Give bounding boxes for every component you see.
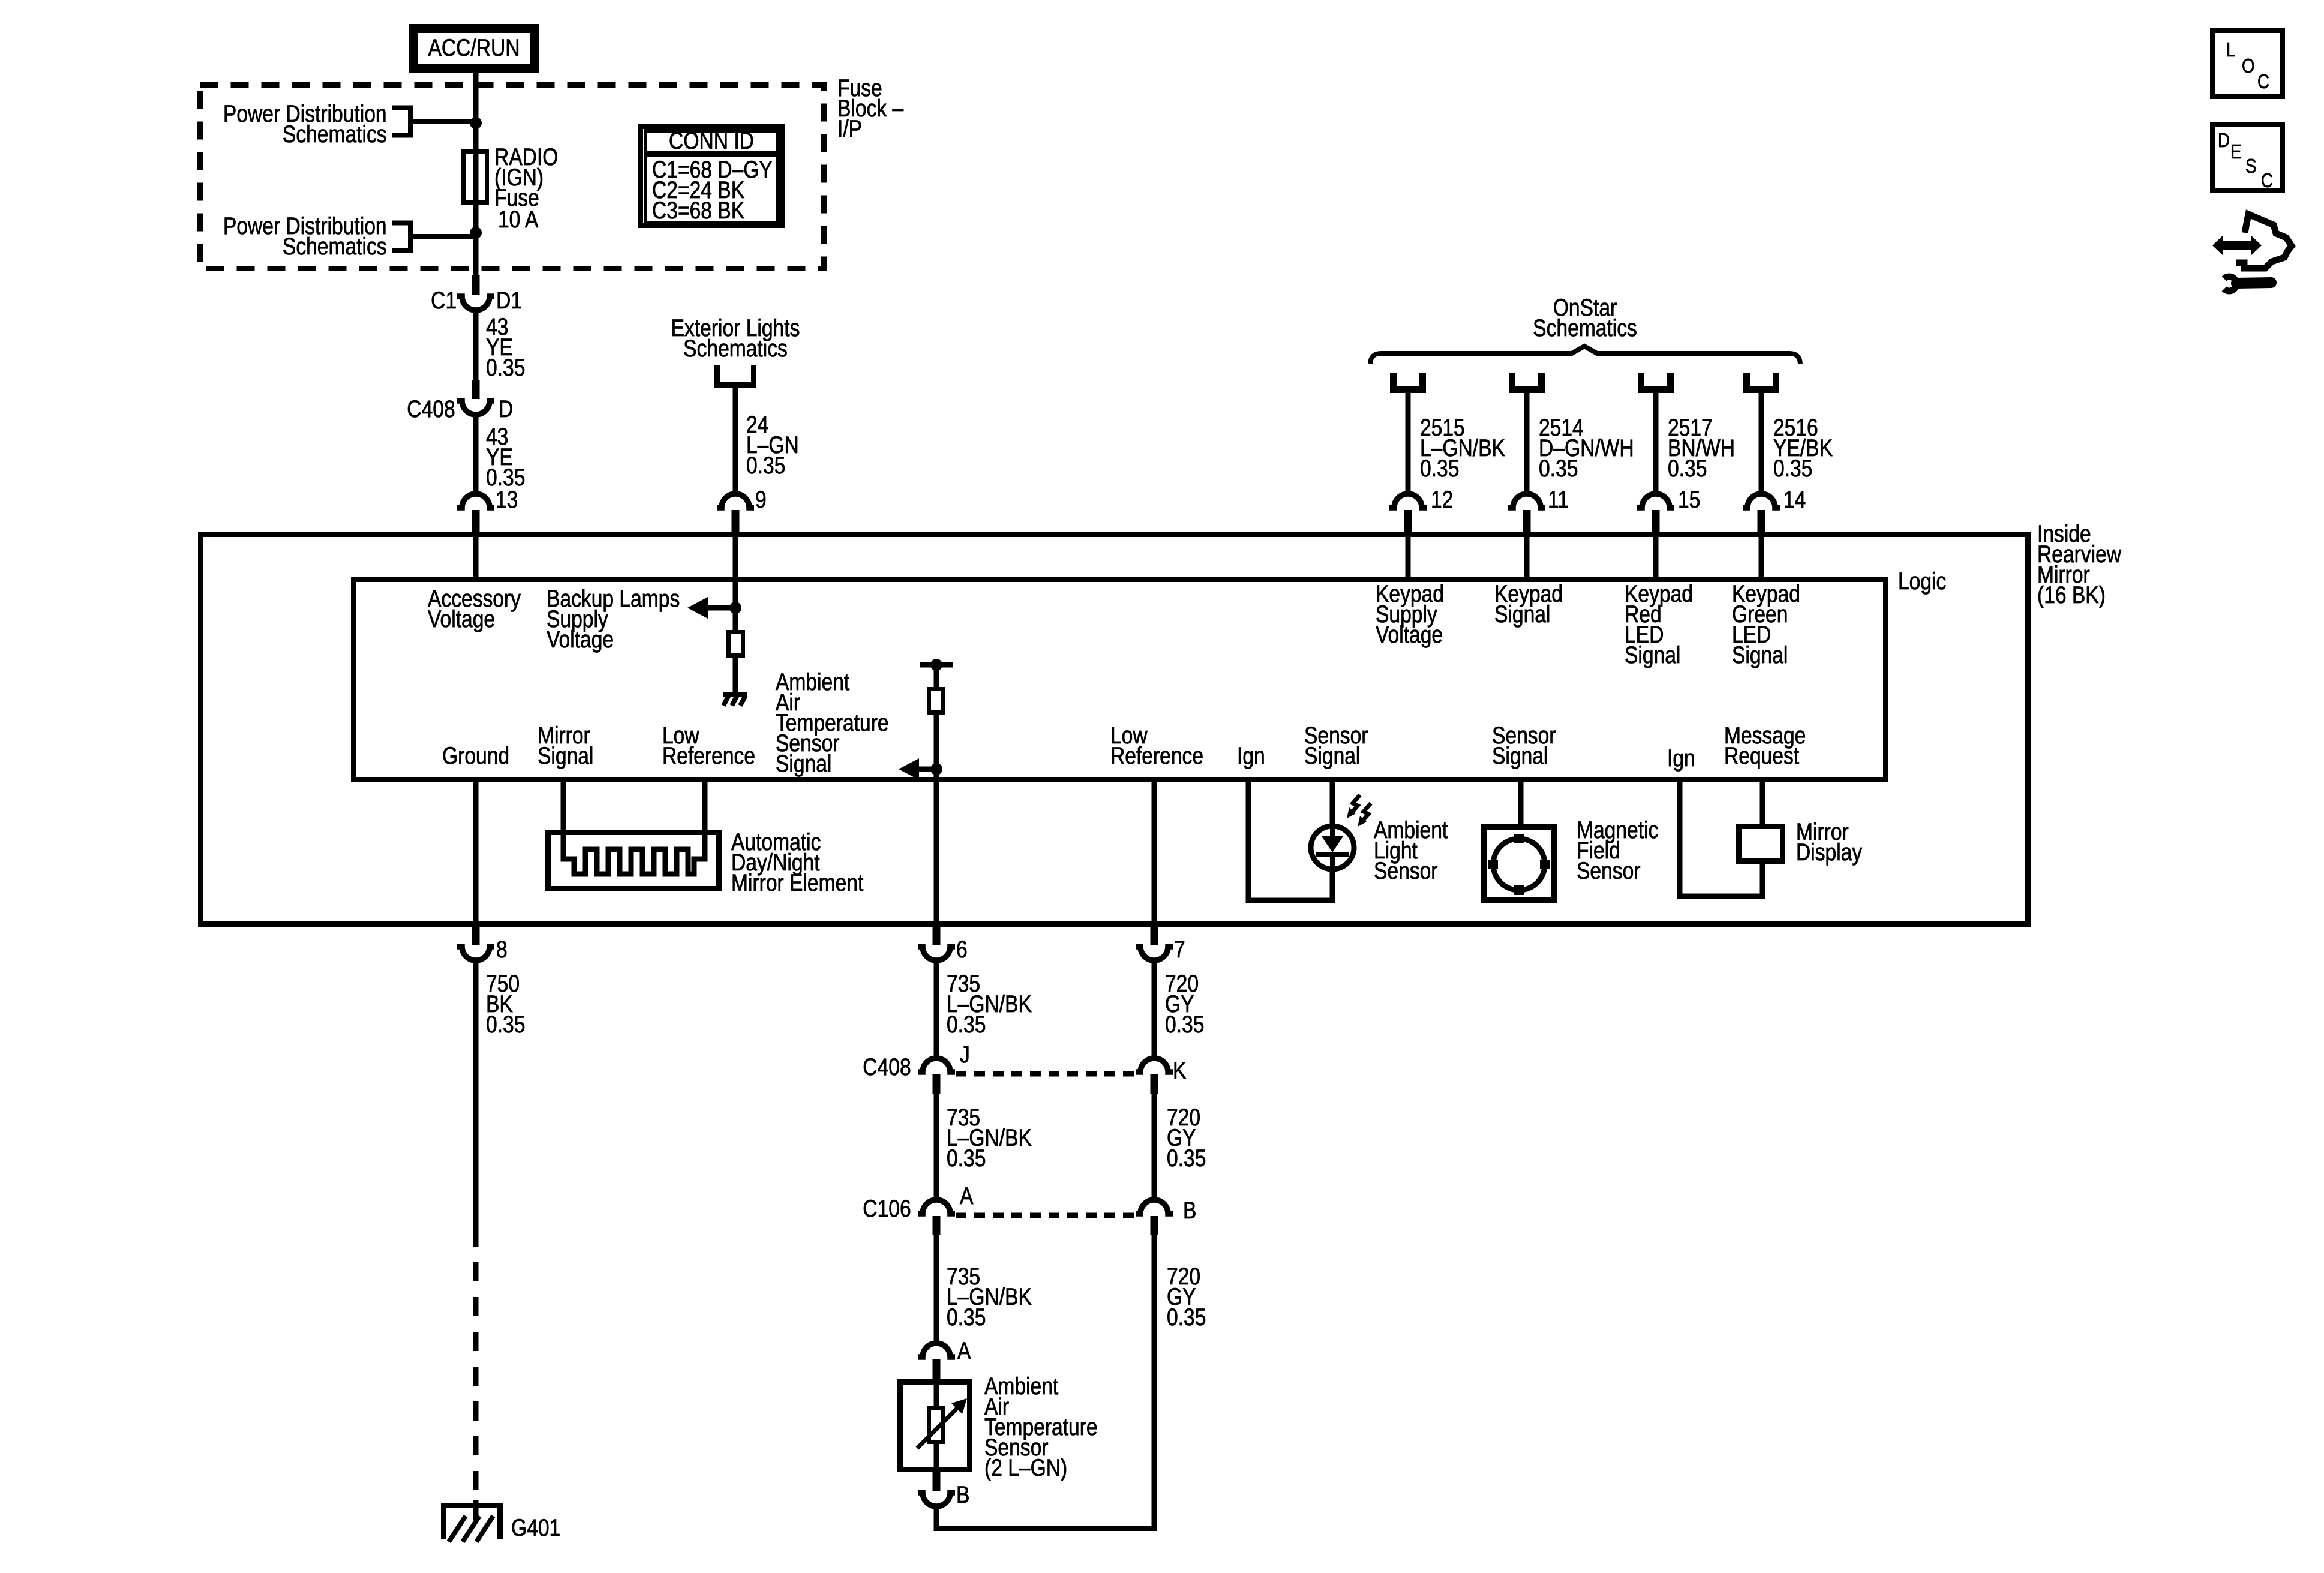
pin D tick xyxy=(472,380,480,399)
icon double arrow xyxy=(2212,235,2262,256)
label 2517 BN/WH 0.35 xyxy=(1668,418,1735,479)
junction node upper xyxy=(470,117,482,129)
wire ign1 loop xyxy=(1248,779,1332,900)
label 735 wire 2 xyxy=(947,1107,1032,1169)
connector C106 B arc xyxy=(1136,1200,1173,1214)
label Automatic Day/Night Mirror Element xyxy=(731,832,863,893)
pin 15 tick xyxy=(1652,510,1660,533)
pin 14 tick xyxy=(1758,510,1765,533)
junction node lower xyxy=(470,227,482,239)
brace OnStar xyxy=(1370,346,1800,364)
label A lower xyxy=(957,1341,971,1361)
icon letters LOC xyxy=(2226,40,2235,60)
label 13 xyxy=(496,490,518,510)
component box mirror display xyxy=(1739,827,1783,861)
wire inside sensor top xyxy=(934,1380,939,1408)
connector pin 15 arc xyxy=(1637,494,1674,508)
pin 12 tick xyxy=(1404,510,1412,533)
light arrows xyxy=(1351,795,1360,813)
resistor ambient pull-up xyxy=(929,689,944,713)
label C408 lower xyxy=(863,1057,911,1077)
label Low Reference right xyxy=(1110,725,1203,766)
icon wrench xyxy=(2224,277,2236,291)
wire 750 BK solid xyxy=(473,960,479,1227)
dashed connector line C408 xyxy=(956,1071,1136,1077)
element automatic day/night mirror xyxy=(563,832,705,874)
label ACC/RUN xyxy=(323,38,625,58)
label Keypad Green LED Signal xyxy=(1732,584,1800,665)
wire sensor signal to led xyxy=(1330,782,1335,828)
wire 735 seg2 xyxy=(934,1094,939,1200)
ground G401 symbol xyxy=(444,1506,500,1539)
wire sensor return loop xyxy=(936,1235,1154,1529)
label 720 wire 3 xyxy=(1167,1266,1206,1328)
wire 720 seg2 xyxy=(1152,1094,1157,1200)
label Mirror Signal xyxy=(538,725,593,766)
connector pin 14 arc xyxy=(1743,494,1780,508)
pin 7 tick xyxy=(1151,926,1158,945)
pin A tick xyxy=(933,1216,941,1235)
icon LOC box xyxy=(2212,31,2283,97)
pin 6 tick xyxy=(933,926,941,945)
wire keypad signal to logic xyxy=(1524,533,1530,580)
sensor pin B tick xyxy=(933,1472,941,1491)
resistor backup lamps xyxy=(729,632,743,656)
wire 43 YE segment 2 xyxy=(473,414,479,494)
junction backup lamps xyxy=(729,602,741,614)
label C106 xyxy=(863,1199,911,1219)
component box Inside Rearview Mirror xyxy=(201,535,2028,924)
label Keypad Supply Voltage xyxy=(1376,584,1444,645)
label 12 xyxy=(1431,490,1453,510)
connector pin 9 arc xyxy=(717,494,754,508)
label Sensor Signal light xyxy=(1304,725,1368,766)
fuse RADIO IGN 10A xyxy=(464,152,487,203)
connector C408 K arc xyxy=(1136,1058,1173,1072)
wire low reference to pin 7 xyxy=(1152,782,1157,927)
connector pin 12 arc xyxy=(1389,494,1427,508)
wire 2516 YE/BK xyxy=(1759,392,1764,494)
label 43 YE 0.35 first xyxy=(486,317,525,378)
label Message Request xyxy=(1724,725,1806,766)
label 2514 D–GN/WH 0.35 xyxy=(1539,418,1634,479)
power symbol ACC/RUN box xyxy=(413,29,535,68)
connector C106 A arc xyxy=(918,1200,955,1214)
label 9 xyxy=(755,490,767,510)
connector pin 7 arc xyxy=(1136,947,1173,960)
label Low Reference left xyxy=(662,725,755,766)
label D xyxy=(499,399,513,419)
label 8 xyxy=(496,939,508,960)
label CONN ID rows xyxy=(652,160,773,221)
label 7 xyxy=(1174,939,1185,960)
pin 8 tick xyxy=(472,926,480,945)
pin B tick xyxy=(1151,1216,1158,1235)
label K xyxy=(1173,1061,1186,1081)
wire resistor to ground xyxy=(733,658,738,694)
label J xyxy=(960,1044,970,1065)
wire ACC/RUN to fuse xyxy=(473,68,479,277)
label 14 xyxy=(1783,490,1806,510)
wire 720 seg1 xyxy=(1152,960,1157,1059)
wire keypad supply to logic xyxy=(1406,533,1411,580)
photodiode ambient light sensor xyxy=(1311,826,1354,869)
label Accessory Voltage xyxy=(428,589,521,629)
wire keypad red led to logic xyxy=(1653,533,1659,580)
label Sensor Signal magnetic xyxy=(1492,725,1556,766)
pin K tick xyxy=(1151,1074,1158,1094)
wire bracket1 to node xyxy=(410,119,476,124)
label 11 xyxy=(1548,490,1569,510)
label CONN ID header xyxy=(560,131,863,151)
label G401 xyxy=(511,1518,560,1538)
rail tee ambient xyxy=(920,662,953,668)
label Inside Rearview Mirror (16 BK) xyxy=(2037,524,2121,605)
junction ambient arrow xyxy=(930,763,942,775)
off-page fork exterior lights xyxy=(714,365,756,385)
icon DESC box xyxy=(2212,125,2283,190)
connector C408 D arc xyxy=(457,401,494,415)
label 2516 YE/BK 0.35 xyxy=(1773,418,1833,479)
label 6 xyxy=(956,939,968,960)
label Magnetic Field Sensor xyxy=(1577,820,1658,881)
label C408 upper xyxy=(407,399,455,419)
label Power Distribution Schematics 2 xyxy=(223,216,387,257)
pin 11 tick xyxy=(1523,510,1531,533)
wire rail to resistor xyxy=(934,665,939,687)
wire 750 BK dashed xyxy=(473,1227,479,1500)
label C1 xyxy=(431,290,457,311)
label 750 BK 0.35 xyxy=(486,974,525,1035)
wire 735 seg3 xyxy=(934,1235,939,1344)
dashed connector line C106 xyxy=(956,1213,1136,1218)
arrow backup lamps xyxy=(687,597,708,619)
label B upper xyxy=(1183,1200,1196,1221)
label Ambient Air Temperature Sensor (2 L-GN) xyxy=(984,1376,1098,1478)
label 735 wire 3 xyxy=(947,1266,1032,1328)
wire keypad green led to logic xyxy=(1759,533,1764,580)
wire 735 seg1 xyxy=(934,960,939,1059)
pin J tick xyxy=(933,1074,941,1094)
label Ign 2 xyxy=(1667,748,1695,769)
off-page fork OnStar 2516 xyxy=(1743,373,1779,390)
wire ambient signal down xyxy=(934,715,939,927)
wire message request xyxy=(1760,782,1765,828)
bracket power distribution 1 xyxy=(392,108,410,136)
logic box xyxy=(354,580,1886,780)
ground internal xyxy=(723,694,747,706)
label Exterior Lights Schematics xyxy=(584,318,887,359)
label Keypad Signal xyxy=(1494,584,1563,625)
wire 2515 L–GN/BK xyxy=(1406,392,1411,494)
connector pin 8 arc xyxy=(457,947,494,960)
connector pin 11 arc xyxy=(1508,494,1545,508)
label Ambient Air Temperature Sensor Signal xyxy=(776,672,889,774)
pin D1 tick xyxy=(472,275,480,295)
label Mirror Display xyxy=(1796,822,1862,863)
label Keypad Red LED Signal xyxy=(1625,584,1693,665)
wire bracket2 to node xyxy=(410,234,476,239)
label B lower xyxy=(956,1485,969,1505)
CONN ID table xyxy=(641,127,783,226)
off-page fork OnStar 2517 xyxy=(1638,373,1674,390)
junction rail xyxy=(930,659,942,671)
label 720 wire 2 xyxy=(1167,1107,1206,1169)
label Ign 1 xyxy=(1237,746,1265,766)
label Power Distribution Schematics 1 xyxy=(223,104,387,145)
bracket power distribution 2 xyxy=(392,223,410,251)
wire 2517 BN/WH xyxy=(1653,392,1659,494)
label A upper xyxy=(960,1186,973,1206)
wire into ground xyxy=(473,1500,479,1520)
connector pin 13 arc xyxy=(457,494,494,508)
wire mirror signal xyxy=(561,782,566,834)
arrow ambient signal xyxy=(899,758,919,780)
label RADIO (IGN) Fuse 10 A xyxy=(494,147,558,208)
label 2515 L–GN/BK 0.35 xyxy=(1420,418,1505,479)
pin 9 tick xyxy=(732,510,740,533)
label 15 xyxy=(1678,490,1700,510)
wire 24 L-GN xyxy=(733,387,738,494)
connector C408 J arc xyxy=(918,1058,955,1072)
wire 43 YE segment 1 xyxy=(473,310,479,380)
pin 13 tick xyxy=(472,510,480,533)
wire ign2 loop xyxy=(1680,779,1762,896)
icon vehicle outline xyxy=(2236,214,2292,268)
thermistor element xyxy=(929,1409,944,1442)
label 735 wire 1 xyxy=(947,974,1032,1035)
component box mirror element xyxy=(548,833,719,889)
thermistor arrow xyxy=(917,1407,958,1448)
label 24 L-GN 0.35 xyxy=(746,415,799,476)
wire pin9 into logic xyxy=(733,533,738,630)
wire sensor signal magnetic xyxy=(1518,782,1524,828)
wire inside sensor bottom xyxy=(934,1444,939,1472)
label Ground xyxy=(442,746,509,766)
off-page fork OnStar 2514 xyxy=(1509,373,1545,390)
connector C1 arc xyxy=(457,296,494,310)
label Backup Lamps Supply Voltage xyxy=(547,589,680,650)
connector pin 6 arc xyxy=(918,947,955,960)
label 720 wire 1 xyxy=(1165,974,1204,1035)
wire pin13 to logic xyxy=(473,533,479,580)
label D1 xyxy=(496,290,522,311)
wire low reference left xyxy=(702,782,708,834)
sensor pin A tick xyxy=(933,1359,941,1380)
label OnStar Schematics xyxy=(1434,298,1736,338)
wire ground to pin 8 xyxy=(473,782,479,927)
connector sensor B arc xyxy=(918,1493,955,1506)
off-page fork OnStar 2515 xyxy=(1390,373,1426,390)
icon letters DESC xyxy=(2218,130,2230,151)
label Fuse Block - I/P xyxy=(837,78,903,139)
fuse block dashed box xyxy=(200,85,824,269)
label Logic xyxy=(1898,571,1946,592)
wire 2514 D–GN/WH xyxy=(1524,392,1530,494)
label Ambient Light Sensor xyxy=(1374,820,1448,881)
component box magnetic field sensor xyxy=(1484,827,1554,900)
label 43 YE 0.35 second xyxy=(486,427,525,488)
component box ambient air temperature sensor xyxy=(900,1382,970,1470)
connector sensor A arc xyxy=(918,1343,955,1357)
